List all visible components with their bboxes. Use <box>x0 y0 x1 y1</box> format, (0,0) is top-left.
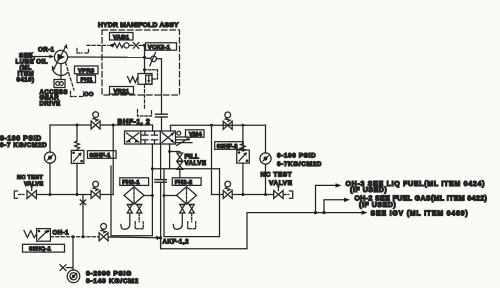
svg-text:NC TEST: NC TEST <box>261 172 293 179</box>
drain line to AKF junction <box>160 182 162 248</box>
svg-text:FH2-1: FH2-1 <box>122 180 140 186</box>
left circuit left vertical <box>49 125 51 152</box>
wire 63HF-2 to bottom <box>242 163 244 194</box>
pump rotation arrow <box>52 67 67 76</box>
left circuit bottom line <box>38 194 114 196</box>
label FH2-2 <box>172 178 201 186</box>
spring 63HF-2 <box>241 144 246 152</box>
pressure switch 63HF-2 <box>237 150 250 163</box>
label VAB1 <box>110 33 134 41</box>
svg-text:63HF-1: 63HF-1 <box>90 153 112 159</box>
check valves FH2-2 <box>180 204 195 214</box>
VAB1 drain bracket <box>77 49 89 54</box>
node OH-1 junction 1 <box>72 235 75 238</box>
relief valve VR21 <box>128 74 153 85</box>
wire pump outlet to manifold <box>68 56 145 58</box>
valve right position crossed arrows <box>162 133 174 143</box>
hand valve right top with crown <box>223 112 232 129</box>
gauge 0-100 PSID left <box>44 152 55 163</box>
tank symbol <box>138 110 152 117</box>
svg-text:BHF-1, 2: BHF-1, 2 <box>118 119 151 126</box>
svg-text:VAB1: VAB1 <box>113 35 130 41</box>
directional valve BHF-1,2 body <box>125 131 176 144</box>
svg-text:AKF-1,2: AKF-1,2 <box>163 239 190 246</box>
svg-text:DRIVE: DRIVE <box>40 100 61 107</box>
valve top port right <box>171 125 266 131</box>
check valves FH2-1 <box>127 204 142 214</box>
dashed pilot line to VAB1 drain <box>87 44 108 46</box>
drain bracket with OO <box>71 92 84 97</box>
svg-text:VCK3-1: VCK3-1 <box>148 45 171 51</box>
svg-text:0-7KG/CM2D: 0-7KG/CM2D <box>277 161 322 168</box>
vent bracket FH2-2 <box>188 213 196 229</box>
wire to fill valve <box>170 152 180 154</box>
node FH2-1 inlet <box>151 194 154 197</box>
svg-text:(IF USED): (IF USED) <box>350 187 387 194</box>
pump drive shaft <box>60 64 62 80</box>
pilot line VR21 dashed <box>145 70 158 79</box>
svg-text:OR-1: OR-1 <box>38 47 55 54</box>
right circuit left vertical <box>211 125 213 194</box>
label 63HF-1 <box>88 151 117 159</box>
svg-text:HYDR MANIFOLD ASSY: HYDR MANIFOLD ASSY <box>98 22 179 29</box>
svg-text:SEE IGV (ML ITEM 0469): SEE IGV (ML ITEM 0469) <box>371 210 469 217</box>
filter box FH2-1 enclosure <box>111 166 152 236</box>
spring 63HF-1 <box>75 141 80 149</box>
node pump line junction <box>143 56 146 59</box>
svg-text:OO: OO <box>84 92 94 98</box>
check valve VCK3-1 <box>150 52 157 65</box>
svg-text:VALVE: VALVE <box>269 180 293 187</box>
gauge 0-2000 PSIG <box>67 270 80 283</box>
hand valve right bottom with crown <box>223 181 232 198</box>
node branch junction OH-3 <box>314 211 317 214</box>
arrowhead SEE IGV <box>362 210 368 214</box>
node right bottom junction 2 <box>264 193 267 196</box>
svg-text:PH1: PH1 <box>81 77 94 83</box>
node VAB1 junction <box>143 44 146 47</box>
wire into FH2-2 <box>164 195 177 197</box>
label FH2-1 <box>120 178 149 186</box>
capped branch X <box>80 195 86 237</box>
NC test valve left <box>14 185 36 199</box>
svg-text:VPR3: VPR3 <box>78 68 95 74</box>
lube oil inlet arrow with break squiggle <box>31 53 54 61</box>
coupling box ACCESS GEAR DRIVE <box>54 80 65 88</box>
valve bottom port 3 fill valve branch <box>169 144 171 169</box>
node AKF junction <box>159 236 162 239</box>
label VCK3-1 <box>146 43 177 51</box>
label VM4 <box>186 130 205 138</box>
node left top junction 1 <box>76 124 79 127</box>
svg-text:63HQ-1: 63HQ-1 <box>29 247 52 253</box>
node left top junction 2 <box>112 124 115 127</box>
filter FH2-1 <box>124 187 144 204</box>
wire OH-1 valve to AKF junction <box>108 236 161 239</box>
node OH-1 junction 2 <box>82 235 85 238</box>
wire VAB1 to pump line <box>144 45 146 73</box>
AKF return line <box>161 213 362 249</box>
valve bottom port drain <box>160 144 162 179</box>
svg-text:FH2-2: FH2-2 <box>175 180 193 186</box>
wire right top to gauge corner <box>265 125 267 153</box>
svg-text:(IF USED): (IF USED) <box>359 202 396 209</box>
branch OH-2 <box>324 200 345 213</box>
svg-text:VR21: VR21 <box>114 89 130 95</box>
hand valve left top with crown <box>91 112 100 129</box>
feed header line <box>152 168 219 170</box>
pressure switch 63HF-1 <box>71 150 84 163</box>
svg-text:OH-1: OH-1 <box>53 230 70 237</box>
wire into FH2-1 <box>144 195 152 197</box>
union symbol upper <box>156 114 168 117</box>
node left bottom junction 1 <box>49 193 52 196</box>
valve left position crossed <box>127 133 139 143</box>
pressure switch 63HQ-1 spring <box>24 231 37 238</box>
right circuit bottom line <box>212 194 274 196</box>
solenoid actuator VM4 <box>176 131 197 145</box>
relief valve VAB1 symbol <box>109 43 145 49</box>
svg-text:0-7 KG/CM2D: 0-7 KG/CM2D <box>0 142 47 149</box>
text ACCESS GEAR DRIVE <box>40 89 68 107</box>
dashed pilot line OH-1 <box>51 236 99 238</box>
node VR21 pilot junction <box>143 68 146 71</box>
node feed junction <box>151 167 154 170</box>
vent bracket FH2-1 <box>135 213 143 229</box>
label VPR3 <box>75 66 99 74</box>
label VR21 <box>110 87 134 95</box>
node fill valve junction <box>168 150 171 153</box>
hand valve OH-1 with crown <box>99 224 108 241</box>
valve bottom port 1 feed FH2-1 <box>151 144 153 169</box>
valve centre blocked ports <box>142 132 158 144</box>
wire union to valve <box>161 117 163 131</box>
fill valve <box>177 153 183 169</box>
svg-text:0-140 KG/CM2: 0-140 KG/CM2 <box>86 278 139 285</box>
drain J FH2-2 <box>173 213 182 229</box>
wire check valve to drop <box>157 59 162 113</box>
arrowhead OH-3 <box>336 183 342 187</box>
text NC TEST VALVE right <box>261 172 293 188</box>
label 63HF-2 <box>215 142 244 150</box>
capped tee X <box>60 265 73 271</box>
label 63HQ-1 <box>23 244 65 252</box>
arrowhead OH-2 <box>344 198 350 202</box>
filter FH2-2 <box>177 187 197 204</box>
drain J FH2-1 <box>121 213 130 229</box>
node left bottom junction 2 <box>76 193 79 196</box>
svg-text:VM4: VM4 <box>189 132 202 138</box>
text SEE LUBE OIL (ML ITEM 0416) <box>16 53 48 84</box>
node branch junction OH-2 <box>322 211 325 214</box>
wire fill valve to filter box <box>179 169 181 177</box>
pressure switch 63HQ-1 <box>37 229 51 242</box>
filter box FH2-2 enclosure <box>164 169 220 237</box>
svg-text:NC TEST: NC TEST <box>17 175 43 181</box>
node FH2-2 inlet <box>163 194 166 197</box>
svg-text:VALVE: VALVE <box>185 160 207 167</box>
text FILL VALVE <box>185 154 207 168</box>
branch OH-3 <box>316 185 337 212</box>
wire to check valve <box>145 57 151 60</box>
node right bottom junction 1 <box>241 193 244 196</box>
pressure switch 63HF-1 drop <box>76 125 78 141</box>
left circuit right vertical <box>112 125 114 195</box>
gauge 0-100 PSID right <box>260 153 271 164</box>
NC test valve right <box>274 185 293 199</box>
left circuit top line <box>50 125 153 131</box>
svg-text:0-2000 PSIG: 0-2000 PSIG <box>86 270 132 277</box>
svg-text:VALVE: VALVE <box>24 182 43 188</box>
pressure switch 63HF-2 drop <box>242 125 244 143</box>
wire right gauge to bottom <box>265 164 267 194</box>
pump OR-1 <box>54 45 68 69</box>
svg-text:0416): 0416) <box>17 77 35 84</box>
node right top junction 2 <box>241 124 244 127</box>
wire gauge to bottom line <box>49 163 51 194</box>
manifold dashed enclosure HYDR MANIFOLD ASSY <box>102 30 180 95</box>
wire 63HF-1 to bottom <box>76 163 78 194</box>
text NC TEST VALVE left <box>17 175 43 188</box>
svg-text:63HF-2: 63HF-2 <box>217 144 239 150</box>
gauge branch vertical <box>72 237 74 270</box>
arrowhead AKF <box>156 236 161 241</box>
label PH1 <box>77 75 96 83</box>
node right top junction 1 <box>210 124 213 127</box>
svg-text:0-100 PSID: 0-100 PSID <box>277 152 316 159</box>
hand valve left bottom with crown <box>91 181 100 198</box>
union symbol lower <box>155 180 166 183</box>
dashed drain VR21 to tank <box>144 84 146 110</box>
pump case drain dashed <box>66 63 75 91</box>
